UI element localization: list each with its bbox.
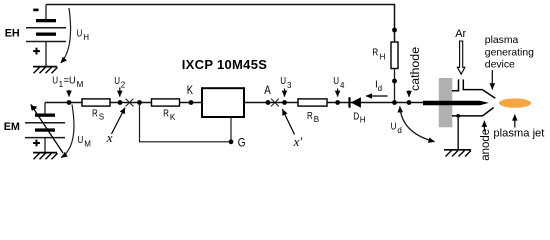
svg-text:R: R bbox=[307, 111, 313, 122]
node U4 bbox=[333, 76, 345, 105]
svg-text:d: d bbox=[378, 84, 382, 93]
node cathode bbox=[407, 100, 412, 105]
insulator block bbox=[439, 78, 453, 127]
svg-text:cathode: cathode bbox=[408, 47, 422, 91]
node at R_H / main rail bbox=[392, 100, 397, 105]
svg-text:H: H bbox=[83, 33, 89, 42]
svg-text:EM: EM bbox=[4, 121, 20, 133]
svg-text:A: A bbox=[264, 84, 271, 97]
svg-text:d: d bbox=[397, 126, 401, 135]
wire: top rail from EH battery to R_H bbox=[46, 5, 395, 43]
ground (anode) bbox=[444, 150, 471, 157]
svg-text:Ar: Ar bbox=[455, 28, 466, 40]
regulator U1 IXCP 10M45S bbox=[182, 57, 267, 117]
svg-text:U: U bbox=[52, 76, 58, 87]
svg-text:D: D bbox=[353, 112, 359, 123]
voltage arrow U_H bbox=[61, 8, 90, 63]
svg-text:K: K bbox=[187, 84, 194, 97]
Ar inlet arrow (hollow) bbox=[457, 41, 465, 74]
variable-source arrow bbox=[31, 105, 63, 154]
battery EH bbox=[5, 5, 66, 67]
cathode electrode bbox=[423, 101, 489, 106]
svg-text:3: 3 bbox=[287, 81, 292, 90]
svg-text:EH: EH bbox=[5, 28, 20, 40]
node junction to gate bbox=[137, 100, 142, 105]
resistor R_B bbox=[298, 99, 327, 124]
anode label bbox=[480, 121, 492, 161]
svg-text:plasma jet: plasma jet bbox=[493, 127, 545, 139]
svg-text:R: R bbox=[92, 109, 98, 120]
ground (EM) bbox=[33, 153, 58, 160]
anode support wire bbox=[456, 114, 460, 150]
anode nozzle bottom arm bbox=[452, 108, 494, 116]
svg-text:M: M bbox=[84, 139, 91, 148]
svg-text:H: H bbox=[380, 52, 386, 61]
svg-text:plasma: plasma bbox=[485, 35, 519, 46]
voltage arrow U_d bbox=[391, 106, 435, 141]
plasma jet label bbox=[493, 115, 545, 140]
node U1 bbox=[52, 76, 83, 105]
plasma jet bbox=[499, 98, 531, 107]
svg-text:device: device bbox=[485, 60, 515, 71]
ground (EH) bbox=[33, 67, 58, 74]
wire: main bottom rail bbox=[45, 102, 423, 104]
gate wire to G bbox=[140, 103, 246, 150]
resistor R_H bbox=[372, 28, 398, 103]
probe point x' bbox=[271, 99, 302, 149]
voltage arrow U_M bbox=[61, 105, 91, 158]
svg-text:R: R bbox=[372, 48, 378, 59]
svg-text:x: x bbox=[106, 130, 113, 145]
svg-text:U: U bbox=[114, 76, 120, 87]
battery EM (variable) bbox=[4, 103, 65, 154]
svg-text:IXCP 10M45S: IXCP 10M45S bbox=[182, 57, 267, 72]
svg-text:U: U bbox=[78, 135, 84, 146]
node K bbox=[187, 84, 194, 105]
svg-text:=U: =U bbox=[64, 76, 76, 87]
svg-text:x′: x′ bbox=[293, 134, 303, 149]
node A bbox=[264, 84, 271, 105]
plasma generating device label bbox=[485, 35, 534, 89]
resistor R_S bbox=[82, 99, 110, 122]
svg-text:M: M bbox=[77, 80, 84, 89]
svg-text:2: 2 bbox=[121, 81, 126, 90]
svg-text:K: K bbox=[170, 113, 176, 122]
svg-text:U: U bbox=[280, 76, 286, 87]
svg-text:anode: anode bbox=[480, 129, 492, 161]
svg-text:H: H bbox=[360, 116, 366, 125]
node U3 bbox=[280, 76, 292, 105]
current arrow I_d bbox=[366, 79, 388, 96]
svg-text:B: B bbox=[314, 115, 319, 124]
svg-text:4: 4 bbox=[340, 81, 345, 90]
diode D_H bbox=[350, 97, 366, 125]
svg-text:S: S bbox=[99, 113, 104, 122]
svg-text:generating: generating bbox=[485, 47, 534, 58]
svg-text:G: G bbox=[238, 135, 246, 149]
node U2 bbox=[114, 76, 126, 105]
resistor R_K bbox=[152, 99, 180, 122]
cathode label bbox=[408, 47, 422, 97]
probe point x bbox=[106, 99, 134, 145]
svg-text:R: R bbox=[163, 108, 169, 119]
svg-text:U: U bbox=[391, 122, 397, 133]
svg-text:U: U bbox=[333, 76, 339, 87]
anode nozzle top arm bbox=[452, 79, 495, 98]
svg-text:U: U bbox=[77, 28, 83, 39]
